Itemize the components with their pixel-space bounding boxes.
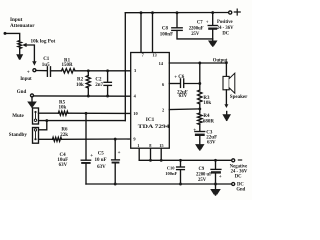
svg-text:R2: R2 [77, 77, 84, 82]
svg-text:63V: 63V [207, 140, 216, 145]
svg-text:1: 1 [137, 143, 139, 148]
potentiometer VR1 10k log [18, 41, 27, 49]
svg-text:+: + [219, 175, 222, 180]
svg-text:Standby: Standby [9, 132, 28, 138]
wire +V drop from top rail to mute line [124, 13, 126, 121]
svg-text:1u5: 1u5 [42, 63, 50, 68]
wire ground rail to pin4 [34, 95, 131, 97]
node C5 junction [114, 138, 117, 141]
svg-text:Mute: Mute [12, 113, 24, 119]
node pin15 junction [160, 159, 163, 162]
svg-text:100nF: 100nF [165, 171, 177, 176]
node mute-standby junction [45, 119, 48, 122]
wire pin8 [150, 148, 152, 160]
node source terminal [4, 32, 7, 35]
op-amp IC1 TDA7294 [131, 53, 170, 149]
node C9 junction [214, 159, 217, 162]
switch SW1 Mute [12, 108, 38, 124]
svg-text:Input: Input [20, 77, 32, 82]
svg-text:R6: R6 [61, 127, 68, 132]
svg-text:10k: 10k [76, 83, 84, 88]
node R3 top junction [198, 62, 201, 65]
node Output [213, 58, 228, 64]
node C2 ground junction [106, 95, 109, 98]
resistor R6 22k [53, 127, 69, 141]
svg-text:63V: 63V [179, 94, 188, 99]
svg-text:C6: C6 [178, 75, 185, 80]
wire R1 to pin3 [75, 70, 130, 72]
wire junction down to standby [39, 121, 47, 130]
capacitor C7 2200uF 25V [189, 13, 218, 41]
wire source to pot [5, 33, 20, 40]
node R2 ground junction [87, 95, 90, 98]
node C8 junction [176, 11, 179, 14]
ground C9 [210, 184, 221, 196]
svg-text:100nF: 100nF [160, 33, 173, 38]
svg-text:R4: R4 [203, 114, 210, 119]
svg-text:Positive: Positive [217, 20, 233, 25]
svg-text:C5: C5 [98, 152, 105, 157]
label Input Attenuator [10, 17, 35, 29]
node Input terminal [20, 69, 36, 83]
node C9 ground junction [214, 183, 217, 186]
arrow speaker plug [224, 104, 228, 108]
wire negative rail [139, 159, 231, 161]
svg-text:150R: 150R [62, 63, 74, 68]
node pin8 junction [149, 159, 152, 162]
node pin7 junction [140, 11, 143, 14]
svg-text:DC: DC [222, 32, 229, 37]
svg-text:Attenuator: Attenuator [10, 23, 35, 29]
svg-text:+: + [174, 76, 177, 81]
wire mute top to R5 [39, 112, 59, 114]
svg-text:IC1: IC1 [146, 117, 155, 123]
svg-text:2n7: 2n7 [95, 83, 103, 88]
capacitor C10 100nF [165, 160, 184, 184]
node C10 junction [179, 159, 182, 162]
resistor R1 150R [62, 58, 76, 73]
svg-text:25V: 25V [198, 178, 207, 183]
wire R6 to pin9 [62, 138, 131, 140]
node C4 junction [85, 112, 88, 115]
node C6 junction [198, 82, 201, 85]
resistor R3 10k [198, 90, 212, 106]
node pin13 junction [151, 11, 154, 14]
resistor R5 10k [58, 100, 68, 115]
svg-text:+: + [118, 151, 121, 156]
svg-text:C1: C1 [43, 57, 50, 62]
node R2 junction [87, 69, 90, 72]
wire pin14 to output [169, 62, 226, 64]
svg-text:DC: DC [235, 174, 242, 179]
wire standby bottom to R6 [39, 138, 53, 140]
capacitor C6 22uF 63V [174, 75, 188, 99]
svg-text:Speaker: Speaker [230, 95, 248, 100]
svg-text:63V: 63V [59, 163, 68, 168]
ground C3 [195, 144, 204, 151]
wire bottom ground rail [86, 183, 232, 185]
wire pin13 [152, 13, 154, 53]
wire pot bottom [19, 49, 21, 54]
switch SW2 Standby [9, 128, 39, 144]
arrow wiper plug [32, 61, 36, 65]
wire output branch down [199, 63, 201, 90]
capacitor C4 10uF 63V [57, 113, 93, 184]
wire C6 to output branch [184, 83, 200, 85]
capacitor C2 2n7 [95, 71, 111, 96]
svg-text:C10: C10 [167, 165, 175, 170]
svg-text:10k log Pot: 10k log Pot [31, 38, 56, 44]
svg-text:24 - 36V: 24 - 36V [217, 26, 234, 31]
node pin2 junction [198, 107, 201, 110]
node C10 ground junction [179, 183, 182, 186]
svg-text:10k: 10k [203, 101, 211, 106]
svg-text:C7: C7 [197, 20, 203, 25]
capacitor C1 1u5 [42, 57, 51, 76]
svg-text:2200uF: 2200uF [189, 27, 204, 32]
svg-text:63V: 63V [97, 165, 106, 170]
node Gnd terminal [17, 90, 34, 97]
svg-text:+: + [90, 154, 93, 159]
svg-text:680R: 680R [203, 120, 215, 125]
capacitor C8 100nF [160, 13, 213, 39]
wire input to C1 [36, 70, 47, 72]
node DC Gnd terminal [232, 182, 246, 192]
svg-text:Output: Output [213, 58, 228, 63]
capacitor C9 2200uF 25V [196, 160, 222, 184]
svg-text:TDA 7294: TDA 7294 [138, 124, 170, 130]
wire pin6 to C6 [169, 83, 180, 85]
capacitor C5 10uF 63V [95, 139, 121, 184]
capacitor C3 22uF 63V [193, 125, 217, 146]
svg-text:10k: 10k [59, 105, 67, 110]
ground pot [16, 54, 23, 60]
wire pin15 [160, 148, 162, 160]
wire R5 to pin10 [68, 112, 130, 114]
node C7 junction [211, 11, 214, 14]
svg-text:25V: 25V [191, 32, 200, 37]
ground Gnd terminal [27, 97, 37, 108]
wire pot wiper [26, 45, 34, 62]
speaker LS1 [223, 73, 248, 100]
svg-text:C9: C9 [199, 167, 205, 172]
wire C1 to R1 [51, 70, 62, 72]
svg-text:Gnd: Gnd [17, 90, 27, 95]
svg-text:C2: C2 [95, 77, 102, 82]
svg-text:+: + [27, 69, 30, 75]
resistor R2 10k [76, 71, 90, 96]
ground C7 [208, 41, 218, 47]
svg-text:+: + [206, 20, 209, 25]
node negative supply terminal [232, 159, 242, 162]
svg-text:22k: 22k [60, 133, 68, 138]
node C5 ground junction [114, 183, 117, 186]
svg-text:Gnd: Gnd [236, 188, 245, 193]
svg-text:+: + [193, 128, 196, 133]
wire pin7 [140, 13, 142, 53]
label Positive 24-36V DC [217, 20, 234, 37]
wire R3 to pin2 node [199, 104, 201, 113]
node positive supply terminal [229, 9, 241, 15]
wire mute bottom to +V drop [39, 120, 126, 122]
node C2 junction [106, 69, 109, 72]
wire output down to speaker [225, 63, 227, 76]
svg-text:10 uF: 10 uF [95, 158, 107, 163]
wire top +V rail [125, 12, 228, 14]
svg-text:2: 2 [162, 108, 164, 113]
label Negative 24-36V DC [230, 164, 248, 179]
wire pin1 [138, 148, 140, 160]
wire speaker return [225, 90, 227, 105]
wire pin2 [169, 108, 200, 111]
svg-text:C8: C8 [162, 27, 169, 32]
resistor R4 680R [198, 113, 215, 125]
ground speaker [222, 112, 231, 122]
